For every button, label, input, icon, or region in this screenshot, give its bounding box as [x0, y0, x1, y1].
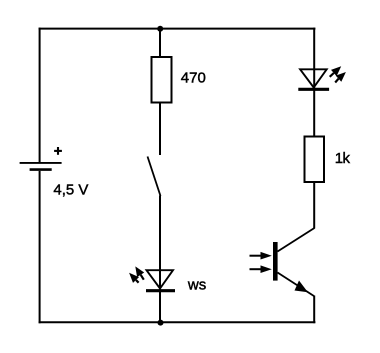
phototransistor Q1	[250, 228, 315, 296]
battery B1	[20, 163, 62, 170]
svg-text:ws: ws	[187, 277, 206, 294]
wire: left rail upper	[39, 28, 41, 162]
wire: bottom rail	[39, 321, 316, 323]
svg-text:470: 470	[181, 69, 206, 86]
wire: top rail	[39, 28, 316, 30]
wire: emitter to bottom rail	[313, 296, 315, 324]
node: bottom junction	[158, 320, 164, 326]
resistor R1	[152, 57, 172, 103]
LED D1 (ws)	[129, 266, 175, 290]
label: 470	[181, 69, 206, 86]
wire: right rail top to resistor 1k	[313, 28, 315, 136]
LED D2	[298, 66, 346, 89]
label: 4,5 V	[53, 182, 88, 199]
wire: switch to bottom junction	[159, 196, 161, 323]
label: battery plus	[54, 147, 62, 155]
label: 1k	[335, 150, 351, 167]
wire: top junction to resistor 470	[159, 29, 161, 57]
resistor R2	[305, 137, 325, 183]
svg-text:4,5 V: 4,5 V	[53, 182, 88, 199]
svg-text:1k: 1k	[335, 150, 351, 167]
node: top junction	[157, 26, 163, 32]
switch S1 (open)	[148, 157, 161, 197]
wire: left rail lower	[39, 171, 41, 323]
wire: resistor 470 to switch	[159, 103, 161, 155]
wire: resistor 1k to collector	[313, 182, 315, 229]
label: ws	[187, 277, 206, 294]
